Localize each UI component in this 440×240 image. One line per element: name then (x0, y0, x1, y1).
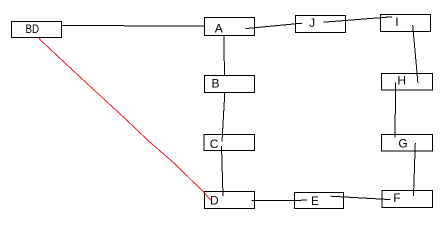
svg-text:BD: BD (26, 22, 40, 36)
wire E-F (331, 196, 391, 199)
node BD box (12, 22, 62, 38)
wire G-F (414, 143, 416, 196)
svg-text:A: A (215, 21, 223, 35)
wire A-J (246, 23, 303, 28)
node D box (205, 192, 255, 209)
node J box (296, 16, 346, 33)
node H box (382, 74, 433, 91)
svg-text:J: J (309, 16, 315, 30)
node F box (382, 191, 433, 208)
node A box (205, 18, 255, 36)
svg-text:I: I (395, 15, 398, 29)
node C box (204, 135, 255, 151)
node B box (205, 76, 255, 93)
wire I-H (413, 25, 418, 83)
wire BD-A (61, 24, 204, 27)
svg-text:D: D (210, 194, 219, 208)
wire D-E (252, 199, 307, 202)
wire A-B (223, 36, 225, 76)
wire BD-D red (39, 38, 211, 200)
svg-text:B: B (212, 76, 220, 90)
node I box (381, 15, 431, 32)
svg-text:G: G (398, 137, 407, 151)
svg-text:C: C (210, 137, 219, 151)
node G box (382, 135, 433, 152)
svg-text:F: F (393, 191, 400, 205)
wire J-I (324, 17, 393, 22)
svg-text:E: E (311, 194, 319, 208)
svg-text:H: H (397, 74, 406, 88)
wire H-G (394, 83, 397, 138)
wire C-D (222, 146, 224, 196)
node E box (295, 193, 344, 209)
wire B-C (222, 93, 225, 142)
